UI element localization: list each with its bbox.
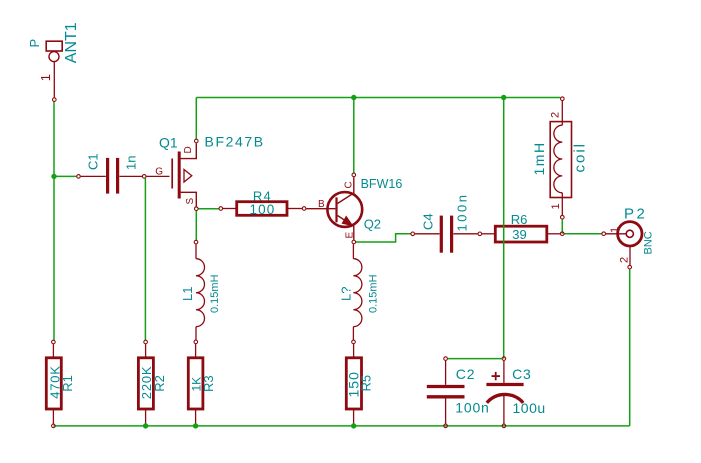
svg-text:P: P (27, 39, 42, 48)
svg-text:E: E (344, 232, 355, 239)
svg-text:C1: C1 (86, 153, 101, 170)
svg-text:S: S (185, 198, 196, 205)
svg-text:R6: R6 (511, 212, 528, 227)
svg-text:R1: R1 (60, 375, 75, 392)
svg-text:R2: R2 (152, 375, 167, 392)
svg-text:C4: C4 (421, 213, 436, 230)
svg-text:0.15mH: 0.15mH (368, 274, 380, 313)
svg-text:1mH: 1mH (531, 141, 547, 175)
svg-text:BNC: BNC (643, 231, 655, 254)
svg-text:C: C (344, 181, 355, 188)
svg-text:C2: C2 (456, 366, 476, 382)
svg-text:1n: 1n (124, 156, 139, 170)
svg-text:1: 1 (550, 203, 562, 209)
svg-text:D: D (183, 146, 194, 153)
svg-text:coil: coil (572, 142, 589, 173)
svg-text:R5: R5 (358, 375, 373, 392)
svg-text:Q1: Q1 (159, 135, 178, 151)
svg-text:2: 2 (619, 257, 631, 263)
svg-text:Q2: Q2 (364, 217, 381, 232)
svg-text:R3: R3 (201, 375, 216, 392)
svg-text:1: 1 (609, 227, 621, 233)
svg-text:100: 100 (249, 202, 275, 217)
svg-text:BFW16: BFW16 (361, 177, 403, 191)
svg-text:L1: L1 (180, 287, 195, 301)
svg-text:C3: C3 (512, 366, 532, 382)
svg-text:ANT1: ANT1 (63, 22, 80, 63)
svg-text:L?: L? (339, 287, 354, 301)
svg-text:100n: 100n (455, 400, 489, 416)
svg-text:100u: 100u (513, 400, 546, 416)
svg-text:BF247B: BF247B (205, 133, 265, 149)
svg-text:B: B (318, 199, 325, 210)
svg-text:39: 39 (512, 227, 526, 242)
svg-text:2: 2 (550, 112, 562, 118)
svg-text:G: G (155, 166, 163, 177)
svg-text:0.15mH: 0.15mH (209, 274, 221, 313)
svg-text:1: 1 (38, 74, 53, 81)
svg-text:100n: 100n (455, 193, 470, 232)
svg-text:P2: P2 (624, 206, 647, 223)
